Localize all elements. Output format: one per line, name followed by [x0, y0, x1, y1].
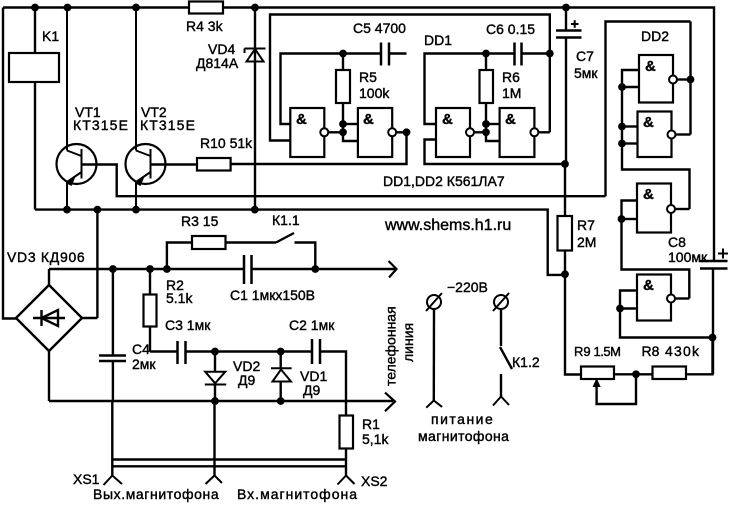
svg-text:R1: R1	[362, 416, 380, 432]
svg-text:1.5M: 1.5M	[594, 344, 621, 359]
svg-text:VD3 КД906: VD3 КД906	[7, 249, 85, 265]
svg-text:5мк: 5мк	[574, 65, 598, 81]
svg-text:1M: 1M	[502, 85, 521, 101]
svg-text:C2 1мк: C2 1мк	[289, 317, 335, 333]
svg-text:−220В: −220В	[447, 279, 488, 295]
svg-text:R4 3k: R4 3k	[186, 18, 224, 34]
svg-text:2M: 2M	[577, 234, 596, 250]
svg-text:100мк: 100мк	[668, 249, 708, 265]
svg-text:К1.1: К1.1	[272, 212, 300, 228]
svg-text:C3 1мк: C3 1мк	[165, 317, 211, 333]
svg-text:КТ315Е: КТ315Е	[140, 117, 196, 133]
svg-text:C6 0.15: C6 0.15	[486, 21, 535, 37]
svg-text:питание: питание	[431, 411, 494, 427]
svg-text:5.1k: 5.1k	[166, 290, 193, 306]
svg-text:R9: R9	[574, 344, 591, 359]
svg-text:430k: 430k	[665, 343, 700, 359]
svg-text:линия: линия	[400, 323, 416, 362]
svg-text:R6: R6	[502, 69, 520, 85]
svg-text:C8: C8	[668, 234, 686, 250]
svg-text:Д814А: Д814А	[196, 55, 239, 71]
svg-text:&: &	[643, 114, 654, 131]
svg-text:2мк: 2мк	[132, 356, 156, 372]
svg-text:C7: C7	[576, 48, 594, 64]
svg-text:R7: R7	[577, 217, 595, 233]
svg-text:R10 51k: R10 51k	[200, 135, 253, 151]
svg-text:XS1: XS1	[73, 471, 100, 487]
svg-text:K1: K1	[42, 28, 59, 44]
svg-text:&: &	[442, 111, 453, 128]
svg-text:DD1: DD1	[424, 32, 452, 48]
svg-text:&: &	[363, 111, 374, 128]
svg-text:&: &	[505, 111, 516, 128]
svg-text:&: &	[643, 277, 654, 294]
svg-text:5,1k: 5,1k	[362, 431, 389, 447]
svg-text:телефонная: телефонная	[383, 306, 399, 386]
svg-text:DD1,DD2 К561ЛА7: DD1,DD2 К561ЛА7	[383, 173, 505, 189]
svg-text:DD2: DD2	[641, 28, 669, 44]
svg-text:Д9: Д9	[303, 382, 320, 398]
svg-text:КТ315Е: КТ315Е	[73, 117, 129, 133]
svg-text:XS2: XS2	[361, 473, 388, 489]
svg-text:www.shems.h1.ru: www.shems.h1.ru	[384, 217, 511, 234]
svg-text:C1 1мкх150В: C1 1мкх150В	[230, 287, 315, 303]
svg-text:Вых.магнитофона: Вых.магнитофона	[93, 486, 219, 502]
svg-text:100k: 100k	[359, 85, 390, 101]
svg-text:&: &	[645, 58, 656, 75]
svg-text:R8: R8	[642, 343, 660, 359]
svg-text:&: &	[643, 186, 654, 203]
svg-text:C4: C4	[132, 341, 150, 357]
svg-text:Вх.магнитофона: Вх.магнитофона	[237, 486, 358, 502]
svg-text:магнитофона: магнитофона	[418, 428, 509, 444]
svg-text:R5: R5	[359, 69, 377, 85]
svg-text:C5 4700: C5 4700	[353, 20, 406, 36]
svg-text:К1.2: К1.2	[512, 354, 540, 370]
svg-text:&: &	[296, 111, 307, 128]
svg-text:Д9: Д9	[238, 372, 255, 388]
svg-text:R3 15: R3 15	[181, 213, 219, 229]
